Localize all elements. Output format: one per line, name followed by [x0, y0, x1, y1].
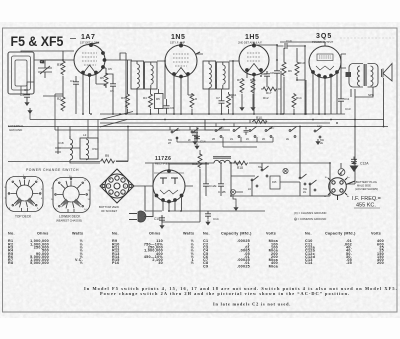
- resistor R14: [292, 93, 296, 108]
- capacitor C6: [164, 103, 170, 111]
- osc coil assembly: [55, 136, 100, 163]
- resistor R3: [126, 93, 130, 108]
- table 3 capacitors: [203, 232, 279, 269]
- capacitor C12A with ground: [351, 157, 357, 165]
- capacitor C2 trimmer: [38, 60, 52, 78]
- IF transformer 2: [203, 61, 229, 89]
- tube 3Q5: [309, 46, 341, 78]
- resistor R16: [198, 153, 202, 168]
- switch 2A group: [248, 166, 317, 194]
- ground under circled X left: [233, 205, 238, 211]
- table 2 resistors: [112, 232, 194, 266]
- wires top section: [21, 39, 384, 161]
- IF transformer 1: [131, 61, 157, 89]
- resistor R2: [61, 96, 65, 111]
- switch 2G: [233, 127, 240, 138]
- switch wafer lower deck: [53, 178, 90, 213]
- AC plug: [129, 211, 153, 222]
- table 4 capacitors: [305, 232, 384, 266]
- capacitor C5: [110, 81, 116, 89]
- resistor R9: [100, 159, 115, 163]
- pot R7 with ground: [240, 78, 244, 93]
- output transformer: [346, 64, 367, 88]
- table 1 resistors: [8, 232, 83, 266]
- switch 2F: [191, 128, 198, 139]
- tube 1H5: [239, 42, 269, 76]
- electrolytic C12e: [203, 181, 209, 189]
- junction dots: [62, 44, 384, 127]
- filter choke: [210, 157, 232, 163]
- electrolytic C12b: [218, 181, 224, 189]
- circled slash node: [338, 169, 345, 176]
- resistor under 1N5: [190, 93, 194, 108]
- resistor R4: [149, 93, 153, 108]
- capacitor C15 with ground: [159, 215, 165, 223]
- tube 1A7: [74, 43, 106, 77]
- circled X node left: [230, 189, 235, 194]
- circled X node right: [283, 168, 288, 173]
- middle bus wires: [8, 94, 388, 211]
- speaker: [368, 64, 393, 88]
- extra small labels: [24, 67, 374, 151]
- capacitor C12d small: [244, 127, 249, 135]
- capacitor C3 with ground: [24, 92, 30, 100]
- switch wafer top deck: [6, 177, 43, 212]
- capacitor C14b with ground: [205, 211, 211, 219]
- capacitor C9: [274, 68, 280, 76]
- capacitor C14 with ground: [194, 134, 200, 142]
- tube 1N5: [165, 42, 200, 78]
- capacitor C10: [281, 43, 290, 49]
- components under IF2: capacitor: [219, 98, 225, 106]
- external ground: [27, 108, 32, 114]
- resistor R17 horizontal: [262, 87, 277, 91]
- faint hatch top right: [340, 37, 395, 39]
- resistor R13: [295, 61, 299, 76]
- wire elbow to switch 2B: [197, 120, 213, 134]
- octal socket bottom view: [100, 169, 134, 203]
- switch 2D: [265, 127, 272, 138]
- resistor: [227, 93, 231, 108]
- resistor R5: [104, 72, 108, 87]
- resistor R6: [282, 61, 286, 76]
- capacitor C4: [73, 79, 79, 87]
- resistor R18: [233, 161, 248, 165]
- resistor R8 with ground: [251, 78, 255, 93]
- switch 2C: [249, 127, 256, 138]
- switch 2H: [171, 128, 178, 139]
- capacitor C8: [264, 71, 270, 79]
- resistor box R5: [155, 94, 164, 109]
- resistor R1: [61, 60, 65, 75]
- switch 2E: [289, 127, 296, 138]
- bottom wires middle: [134, 127, 355, 223]
- capacitor C11: [338, 96, 344, 104]
- switch 2B: [215, 127, 222, 138]
- resistor R10: [252, 120, 267, 124]
- switch contacts row: [168, 125, 325, 145]
- battery plug: [328, 178, 355, 200]
- loop antenna: [8, 52, 34, 94]
- switch 2E right: [314, 127, 321, 138]
